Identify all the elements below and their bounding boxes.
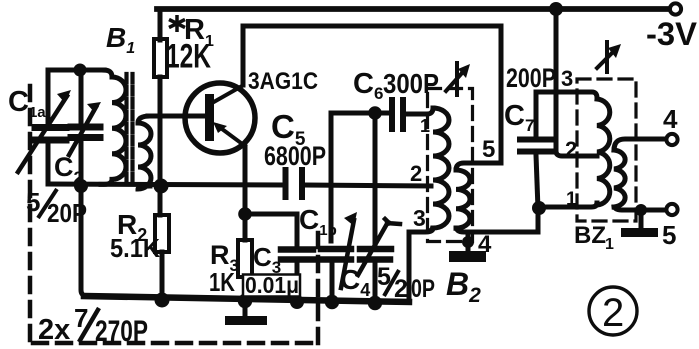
svg-text:3: 3 xyxy=(561,66,573,91)
node dot R1/R2 xyxy=(154,179,169,194)
transformer BZ1 shield dashed box xyxy=(577,79,636,221)
wire V1 vertical xyxy=(329,113,334,241)
terminal 4 xyxy=(666,134,677,145)
transistor Q1 base bar xyxy=(205,94,214,141)
wire R3 bottom xyxy=(243,277,248,302)
wire C2 branch bottom xyxy=(79,141,84,186)
svg-text:0.01μ: 0.01μ xyxy=(245,272,299,298)
wire B2 secondary bottom xyxy=(456,211,538,232)
svg-text:20P: 20P xyxy=(47,198,87,228)
svg-text:6800P: 6800P xyxy=(264,141,326,171)
capacitor C5 xyxy=(286,170,303,197)
svg-text:2: 2 xyxy=(602,291,624,335)
svg-text:4: 4 xyxy=(478,231,492,258)
arrow C1a xyxy=(18,96,67,172)
svg-text:-3V: -3V xyxy=(646,16,698,52)
ground below BZ1 xyxy=(621,228,658,237)
wire rail drop to BZ1 tap2 xyxy=(556,9,597,156)
transistor Q1 circle xyxy=(185,83,255,153)
figure number circled 2 xyxy=(589,287,637,335)
node dot C6 left xyxy=(368,106,382,120)
wire C2 branch top xyxy=(79,70,84,124)
core arrow B2 xyxy=(446,63,462,95)
wire ground stub B2 xyxy=(466,232,471,243)
wire tank top xyxy=(48,68,104,73)
svg-text:C4: C4 xyxy=(340,264,370,300)
svg-text:2: 2 xyxy=(565,137,577,162)
core arrow BZ1 xyxy=(597,42,612,72)
wire R2 bottom xyxy=(160,252,165,300)
capacitor C3 xyxy=(281,250,313,260)
svg-text:4: 4 xyxy=(663,104,678,134)
svg-text:5.1K: 5.1K xyxy=(110,233,160,263)
wire C3 bottom lead xyxy=(295,261,300,302)
capacitor C2 xyxy=(71,127,100,138)
svg-text:5: 5 xyxy=(482,136,495,163)
capacitor C4 xyxy=(360,249,391,260)
wire tank left vertical top xyxy=(46,70,51,124)
node dot C1b bottom xyxy=(325,295,339,309)
wire tank left vertical bottom xyxy=(46,143,51,184)
svg-text:1: 1 xyxy=(566,189,577,210)
svg-text:12K: 12K xyxy=(166,38,211,76)
node dot R2 bottom xyxy=(155,293,170,308)
transistor Q1 collector xyxy=(212,86,242,103)
node dot BZ1 ground xyxy=(635,204,647,216)
wire C6 to B2 pin1 xyxy=(405,108,433,114)
wire C7 top / BZ1 pin3 xyxy=(536,92,597,136)
transformer B2 primary xyxy=(433,108,449,228)
svg-text:1K: 1K xyxy=(209,267,235,297)
svg-text:1: 1 xyxy=(420,116,430,136)
terminal 5 xyxy=(666,204,677,215)
terminal -3V xyxy=(670,3,681,14)
capacitor C6 xyxy=(392,100,403,129)
wire B2 pin3 to bottom rail xyxy=(409,228,433,302)
svg-text:B2: B2 xyxy=(446,266,481,307)
svg-text:200P: 200P xyxy=(506,63,556,93)
node dot top rail xyxy=(549,2,563,16)
wire V2 bottom xyxy=(373,263,378,303)
transformer B1 secondary xyxy=(138,116,151,189)
svg-text:3: 3 xyxy=(413,205,426,231)
wire base xyxy=(148,114,204,119)
ground stub at BZ1 xyxy=(639,210,644,228)
svg-text:BZ: BZ xyxy=(574,222,606,249)
wire emitter down xyxy=(243,147,248,214)
resistor R2 xyxy=(155,215,169,252)
wire BZ1 pin1 xyxy=(538,203,597,207)
wire V2 vertical xyxy=(373,113,378,245)
transformer B2 shield dashed box xyxy=(428,89,473,242)
wire R1 top drop xyxy=(158,9,163,40)
ground below R3 xyxy=(243,302,248,317)
svg-text:2: 2 xyxy=(394,275,408,303)
svg-text:5: 5 xyxy=(26,187,40,217)
resistor R1 xyxy=(154,39,167,77)
transformer BZ1 secondary xyxy=(614,150,625,207)
transformer BZ1 primary xyxy=(597,99,610,205)
svg-text:300P: 300P xyxy=(383,68,439,99)
node dot tank top xyxy=(74,64,87,77)
svg-text:B1: B1 xyxy=(106,22,135,57)
svg-text:2: 2 xyxy=(410,161,422,186)
node dot C3 bottom xyxy=(290,295,304,309)
capacitor C7 xyxy=(520,140,552,152)
transformer B2 secondary xyxy=(456,170,470,228)
wire C6 horizontal xyxy=(331,111,388,116)
arrow C4 xyxy=(358,219,400,275)
wire link tank to bottom rail xyxy=(81,186,87,296)
wire C3 top lead xyxy=(295,214,300,247)
node dot C2 bottom xyxy=(74,179,88,193)
resistor R3 xyxy=(238,240,252,277)
wire emitter node to R3 xyxy=(243,214,248,240)
svg-text:C6: C6 xyxy=(353,68,383,103)
transformer B1 primary xyxy=(101,70,126,184)
node dot emitter xyxy=(238,207,252,221)
wire C5 right to B2 pin2 xyxy=(305,185,431,186)
capacitor C1b xyxy=(321,249,351,260)
arrow C1b xyxy=(341,220,354,288)
transistor Q1 emitter arrowhead xyxy=(213,122,227,133)
transformer B1 core xyxy=(127,74,133,182)
wire BZ1 secondary top to terminal 4 xyxy=(614,139,665,150)
arrow C2 xyxy=(69,107,96,155)
transistor Q1 emitter xyxy=(218,126,245,146)
svg-text:C1a: C1a xyxy=(8,86,46,121)
wire collector loop box xyxy=(243,26,501,170)
wire bottom rail xyxy=(84,296,409,302)
label 0.01u xyxy=(243,275,300,297)
svg-text:0P: 0P xyxy=(411,275,435,303)
svg-text:2x: 2x xyxy=(38,314,70,346)
asterisk of R1 xyxy=(169,15,185,32)
node dot C7 bottom xyxy=(532,201,546,215)
dashed gang box xyxy=(30,86,318,343)
node dot C4 bottom xyxy=(368,296,382,310)
svg-text:5: 5 xyxy=(662,220,676,250)
svg-text:270P: 270P xyxy=(95,315,148,348)
wire C7 bottom lead xyxy=(536,155,538,209)
ground below B2 secondary xyxy=(449,251,486,262)
capacitor C1a xyxy=(35,128,66,141)
node dot R3 bottom xyxy=(238,294,252,308)
node dot B2 ground xyxy=(462,236,474,248)
svg-text:C7: C7 xyxy=(504,100,534,135)
wire V1 bottom xyxy=(330,260,335,303)
svg-text:1: 1 xyxy=(605,236,614,253)
wire top rail -3V xyxy=(157,6,668,12)
wire R1 bottom to base node and R2 xyxy=(158,77,163,215)
svg-text:3AG1C: 3AG1C xyxy=(248,68,318,95)
wire emitter node right to C3 xyxy=(245,212,297,217)
wire BZ1 secondary bottom to terminal 5 xyxy=(614,207,665,210)
wire B common horizontal xyxy=(48,184,283,185)
